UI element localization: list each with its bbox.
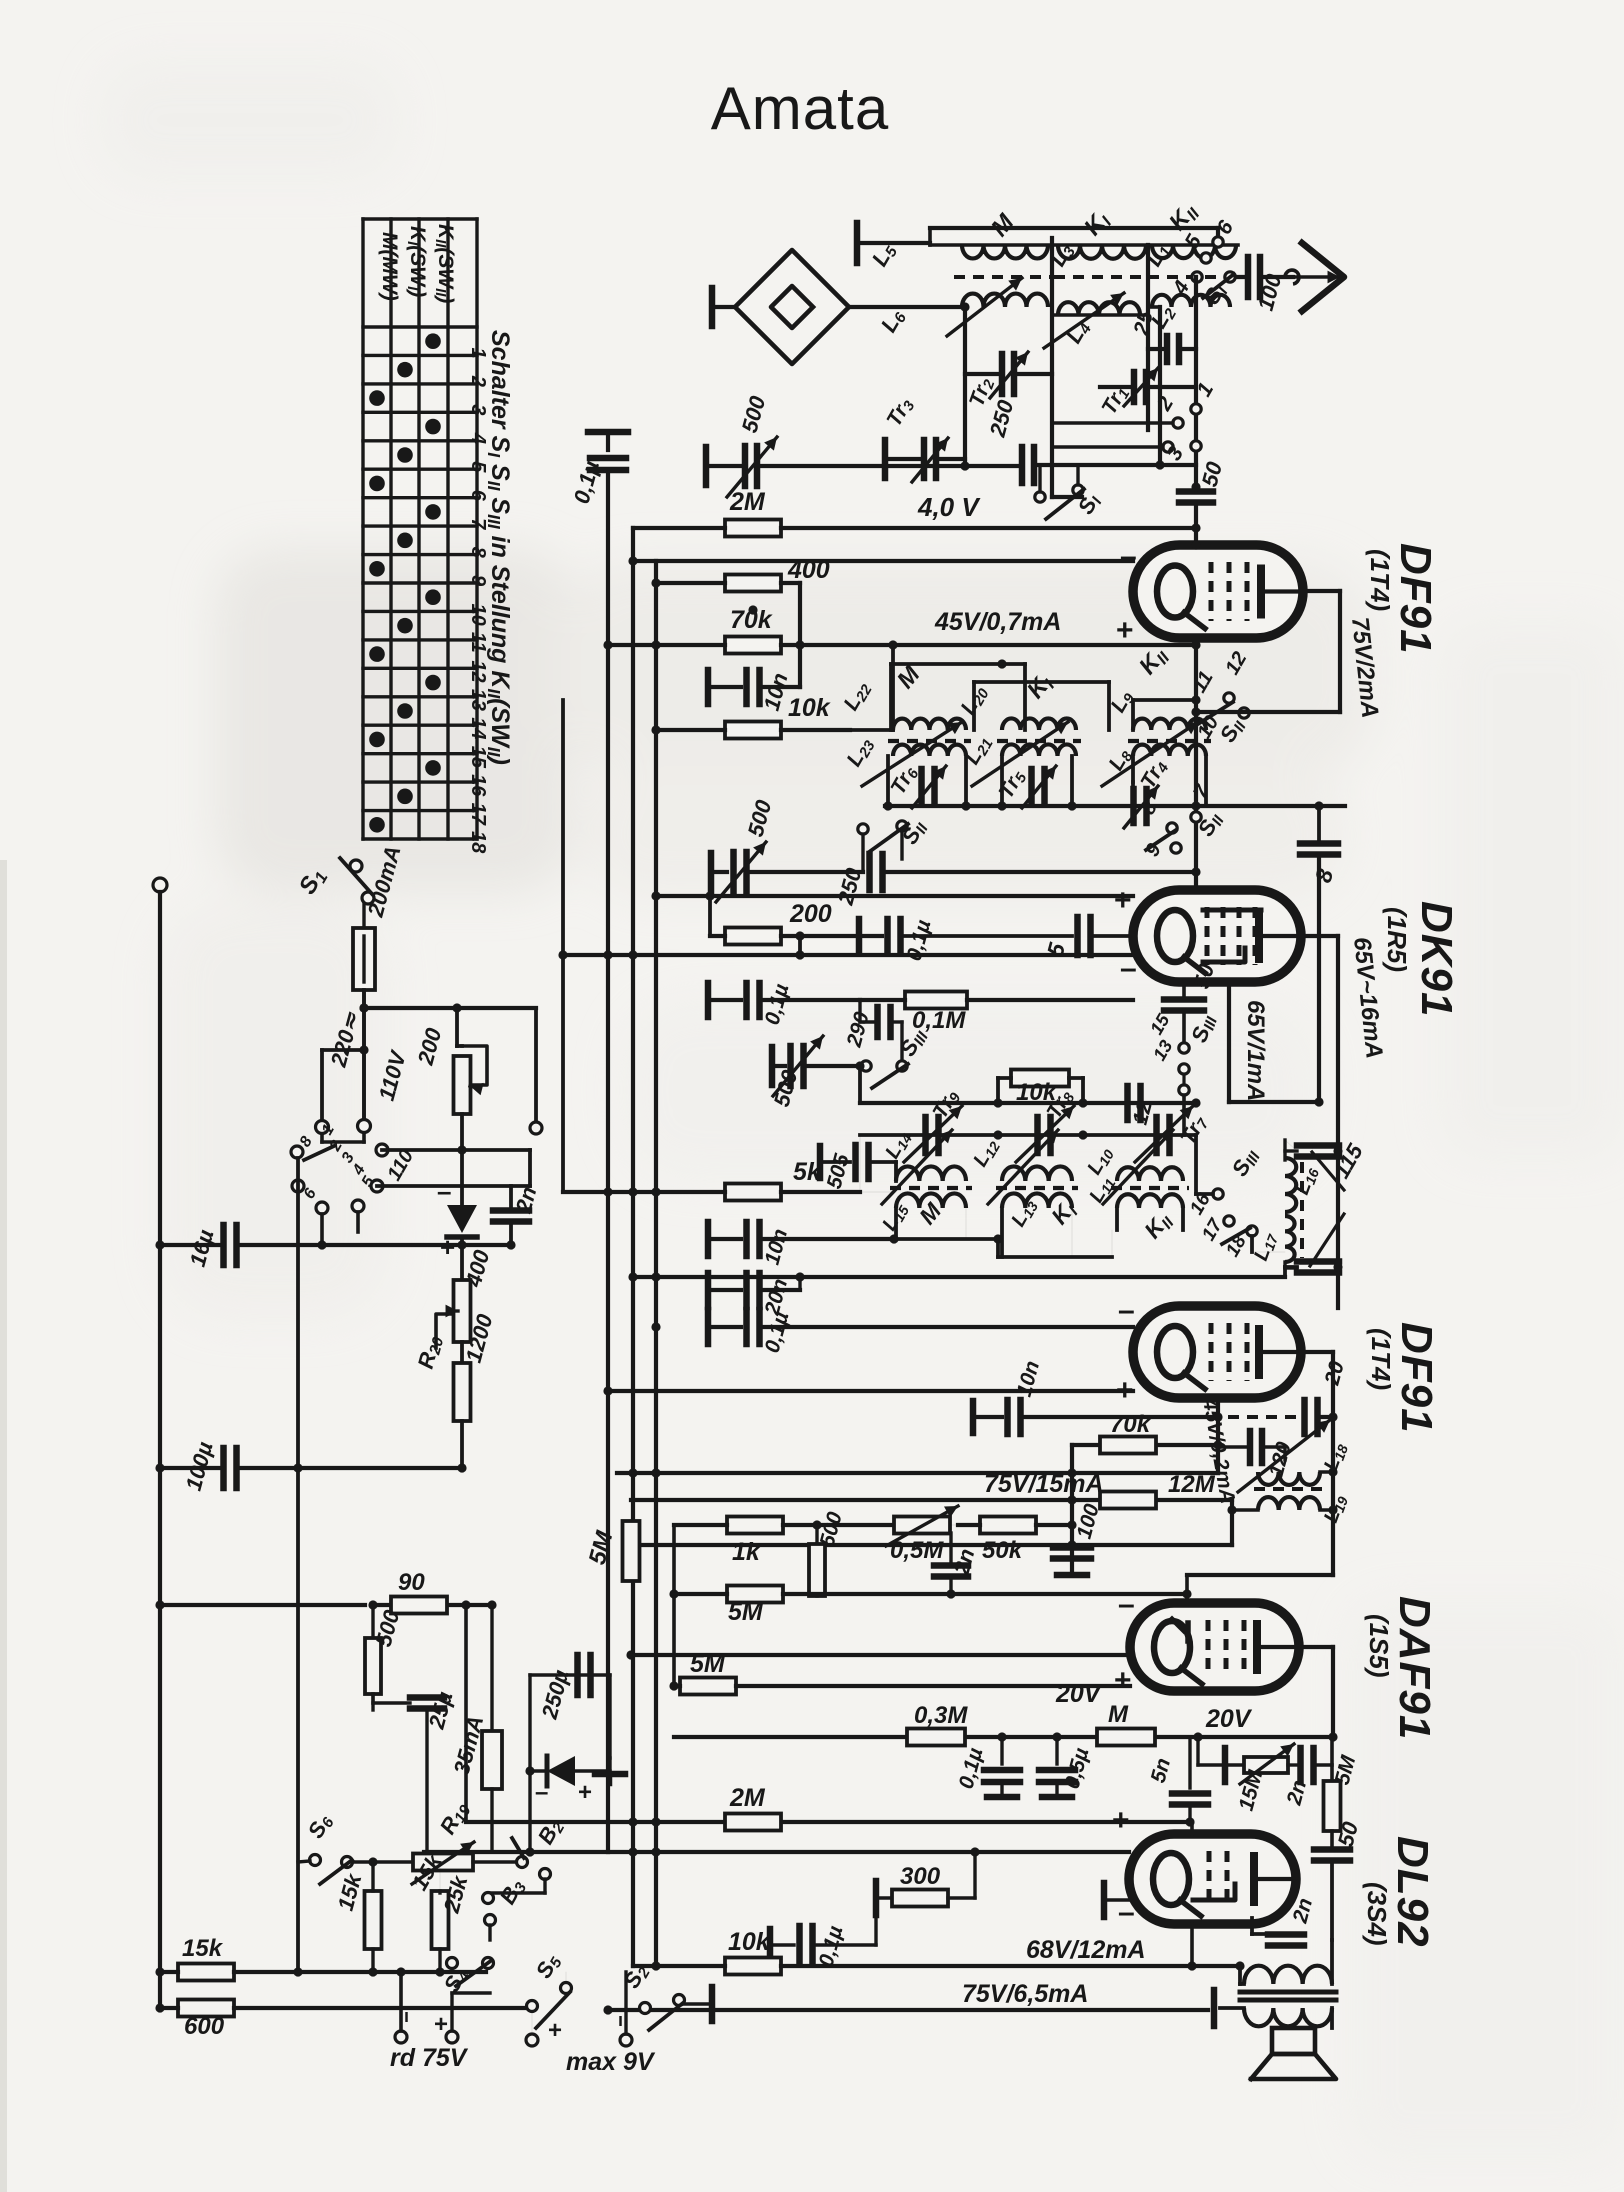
speaker: [1251, 2028, 1336, 2079]
svg-text:20V: 20V: [1205, 1705, 1253, 1733]
wire stub 674: [669, 1525, 678, 1599]
svg-text:10: 10: [467, 603, 489, 625]
svg-text:68V/12mA: 68V/12mA: [1026, 1936, 1146, 1964]
wire bank3 box M: [889, 1208, 998, 1244]
capacitor IF3 top: [1297, 1146, 1339, 1157]
wire top bus: [930, 228, 1218, 245]
wire bus C: [654, 561, 658, 1966]
svg-text:4,0 V: 4,0 V: [917, 492, 981, 522]
wire row 1473: [617, 1468, 1218, 1477]
ground stub left of coil M: [857, 223, 930, 263]
resistor 0.1M: [860, 992, 1133, 1035]
coil KII primary L1: [1141, 198, 1238, 272]
resistor 5M output: [1324, 1753, 1361, 1831]
svg-text:400: 400: [787, 556, 830, 584]
svg-text:600: 600: [184, 2013, 225, 2040]
contact 18 switch SIII: [1222, 1144, 1264, 1261]
switch SII mid: [858, 815, 933, 872]
wire tube4 grid: [1182, 1575, 1333, 1603]
coil K2II primary L9: [1106, 686, 1206, 730]
label 65V~16mA: [1348, 936, 1388, 1060]
label (3S4): [1362, 1882, 1392, 1946]
capacitor 12 osc: [1128, 1086, 1157, 1127]
resistor 25k vertical: [432, 1862, 473, 1977]
svg-text:300: 300: [900, 1863, 941, 1890]
label 65V/1mA: [1242, 1000, 1269, 1101]
wire row 1103: [855, 1061, 1200, 1107]
contact 5: [1180, 231, 1211, 264]
wire hat K2I: [974, 682, 1109, 730]
label 115 trimmer arrows: [1310, 1139, 1368, 1266]
resistor 500 heater: [365, 1605, 405, 1710]
capacitor 250: [984, 397, 1160, 483]
coil K3I secondary L13: [1002, 1193, 1082, 1231]
wire bank3 to IF3: [1196, 1135, 1285, 1252]
svg-text:ı: ı: [618, 2010, 623, 2030]
wire row 465 right: [1155, 460, 1196, 469]
wire selector to bus: [296, 1158, 300, 1972]
contact 17: [1198, 1214, 1234, 1244]
capacitor 0.1u out: [770, 1911, 876, 1969]
label (1T4) V3: [1366, 1328, 1396, 1390]
switch SIII mid: [861, 1024, 933, 1088]
resistor 5M grid: [674, 1594, 1242, 1696]
capacitor 505: [820, 1145, 896, 1191]
coil KII secondary L2: [1146, 295, 1230, 334]
fuse 35mA: [449, 1605, 502, 1852]
svg-text:8: 8: [467, 547, 489, 559]
svg-text:15k: 15k: [182, 1935, 224, 1962]
capacitor 0.1u mid a: [859, 917, 1072, 963]
svg-text:6: 6: [467, 490, 489, 502]
label 20V right: [1205, 1705, 1253, 1733]
wire V4 anode: [1299, 1647, 1333, 1737]
label 75V/6.5mA: [962, 1980, 1088, 2008]
loop antenna: [712, 250, 962, 364]
wire IF3 connections: [628, 1146, 1342, 1281]
capacitor 250u: [530, 1655, 610, 1770]
label minus V4: [1118, 1588, 1135, 1621]
svg-text:70k: 70k: [1110, 1411, 1152, 1438]
label 45V/0.2mA: [1198, 1396, 1239, 1506]
resistor 2M af: [725, 1784, 781, 1831]
potentiometer 15M: [1198, 1737, 1300, 1813]
svg-text:–: –: [1120, 952, 1137, 985]
svg-text:5M: 5M: [690, 1650, 726, 1678]
tube DF91 V1: [1133, 545, 1303, 638]
coil M3 secondary L15: [878, 1193, 966, 1235]
label plus V2: [1114, 884, 1132, 917]
svg-text:12: 12: [467, 660, 489, 682]
contact 16: [1186, 1189, 1223, 1219]
label 75V/2mA: [1346, 616, 1383, 720]
node V1 top: [1191, 540, 1200, 549]
svg-text:ı: ı: [404, 2006, 409, 2026]
table Schalter grid: [363, 219, 477, 839]
svg-text:(3S4): (3S4): [1362, 1882, 1392, 1946]
antenna symbol: [1285, 243, 1344, 311]
coil L18: [1238, 1420, 1351, 1492]
svg-text:2M: 2M: [729, 1784, 766, 1812]
svg-text:0,3M: 0,3M: [914, 1702, 968, 1729]
coil K2I core: [997, 739, 1081, 743]
contact 1: [1191, 379, 1218, 414]
svg-text:11: 11: [467, 632, 489, 653]
battery terminals rd 75V: [390, 1967, 490, 2072]
diode B rectifier 2: [525, 1675, 610, 1857]
wire bank3 box KI: [993, 1208, 1112, 1257]
trimmer Tr7: [1135, 1106, 1213, 1162]
svg-text:1k: 1k: [732, 1538, 761, 1566]
label plus V1: [1116, 614, 1134, 647]
svg-text:+: +: [1116, 1374, 1134, 1407]
wire tube1 cathode row: [1191, 638, 1200, 890]
wire hat M2: [891, 659, 1025, 730]
contact 6: [1212, 217, 1238, 248]
svg-text:(1T4): (1T4): [1365, 549, 1395, 611]
wire row 955: [558, 950, 1133, 959]
coil L17: [1250, 1216, 1297, 1268]
wire avc vertical: [561, 700, 565, 1192]
svg-text:16: 16: [467, 774, 489, 797]
capacitor 50 grid: [1179, 458, 1227, 545]
switch SIII ladder: [1146, 1010, 1221, 1135]
resistor 90: [373, 1569, 497, 1614]
wire grid feed vertical: [1194, 277, 1198, 487]
svg-text:18: 18: [467, 831, 489, 854]
capacitor 290: [842, 1000, 902, 1066]
switch S6: [298, 1809, 412, 1884]
svg-text:2: 2: [467, 375, 489, 387]
coil M2 primary L22: [839, 677, 966, 730]
coil K3II core: [1111, 1186, 1189, 1190]
svg-text:0,1M: 0,1M: [912, 1007, 966, 1034]
svg-text:rd 75V: rd 75V: [390, 2044, 469, 2072]
svg-text:50k: 50k: [982, 1537, 1024, 1564]
capacitor 5n: [1147, 1737, 1208, 1827]
wire KII frame: [1158, 307, 1162, 465]
wire bus B: [631, 528, 635, 1966]
resistor 500 vertical: [809, 1509, 847, 1596]
resistor 600: [155, 2000, 530, 2041]
svg-text:2M: 2M: [729, 488, 766, 516]
capacitor 0.1u osc: [651, 1309, 1133, 1355]
switch S5: [527, 1949, 572, 2028]
svg-text:–: –: [1118, 1588, 1135, 1621]
capacitor 0.1u mid b: [708, 981, 860, 1027]
wire heater vertical: [464, 1605, 468, 1822]
svg-text:75V/15mA: 75V/15mA: [984, 1470, 1104, 1498]
resistor 70k top: [603, 605, 1196, 653]
wire bank3 box KII: [1112, 1208, 1183, 1257]
label 4.0V: [917, 492, 981, 522]
label plus V3: [1116, 1374, 1134, 1407]
svg-text:+: +: [1112, 1804, 1130, 1837]
battery terminal max 9V: [526, 1972, 656, 2076]
svg-text:–: –: [535, 1779, 548, 1806]
svg-text:200: 200: [789, 900, 832, 928]
capacitor 16u: [155, 1225, 511, 1269]
trimmer Tr2: [965, 352, 1052, 410]
label (1T4) V1: [1365, 549, 1395, 611]
svg-text:14: 14: [467, 717, 489, 739]
capacitor 0.1u top left: [569, 432, 628, 1852]
table caption Schalter SI SII SIII in Stellung KII(SWII): [484, 330, 514, 765]
svg-text:DF91: DF91: [1391, 543, 1440, 655]
wire contacts 2-3 links: [1052, 423, 1173, 447]
coil K3I primary L12: [969, 1130, 1072, 1204]
wire row 561: [628, 556, 1133, 565]
resistor 400 top: [651, 556, 829, 650]
resistor M audio: [1097, 1701, 1155, 1746]
ground speaker supply: [595, 1758, 625, 1784]
fuse 200mA: [353, 843, 406, 1125]
coil KI secondary L4: [1044, 293, 1148, 349]
resistor 200 mid: [710, 896, 859, 960]
capacitor 2n out: [1282, 1737, 1332, 1808]
capacitor 50 V2 grid: [1164, 960, 1219, 1042]
switch S2: [619, 1959, 685, 2030]
svg-text:9: 9: [467, 575, 489, 587]
table selection dots: [369, 333, 441, 832]
svg-text:45V/0,7mA: 45V/0,7mA: [934, 608, 1061, 636]
capacitor 250 mid: [832, 854, 1200, 908]
capacitor 10n V3: [973, 1358, 1218, 1434]
switch S1 mains: [294, 858, 374, 904]
svg-text:3: 3: [467, 404, 489, 415]
svg-text:5k: 5k: [793, 1158, 822, 1186]
svg-text:+: +: [1114, 1664, 1132, 1697]
contact 3: [1162, 441, 1201, 465]
terminal bar speaker: [1214, 1990, 1244, 2026]
contact 9: [1141, 807, 1228, 860]
label minus V5: [1118, 1896, 1135, 1929]
svg-text:12M: 12M: [1168, 1471, 1216, 1498]
capacitor 2n speaker: [1252, 1896, 1317, 1946]
coil M2 core: [888, 739, 971, 743]
wire selector loop: [322, 990, 542, 1134]
resistor 12M: [631, 1471, 1237, 1545]
capacitor 50 output: [1314, 1818, 1363, 1940]
svg-text:(1R5): (1R5): [1382, 907, 1412, 972]
svg-text:max 9V: max 9V: [566, 2048, 656, 2076]
contact 11 switch SII: [1188, 668, 1249, 724]
svg-text:+: +: [1116, 614, 1134, 647]
coil K2II secondary L8: [1102, 642, 1206, 786]
wire row 2010: [603, 2005, 1208, 2014]
contact 10: [1193, 712, 1250, 747]
capacitor IF3 bottom: [1297, 1262, 1339, 1273]
coil K3I core: [996, 1186, 1078, 1190]
contact 8 switch SII lower: [1137, 797, 1177, 850]
voltage selector 220/110: [291, 1008, 418, 1250]
label (1R5) V2: [1382, 907, 1412, 972]
label minus V3: [1118, 1294, 1135, 1327]
resistor 15k vertical: [333, 1857, 382, 1976]
coil K3II primary L10: [1083, 1130, 1183, 1204]
wire coil M down: [963, 307, 967, 466]
table header KII(SWII): [432, 224, 457, 303]
table header KI(SWI): [404, 226, 429, 297]
capacitor 100 antenna: [1236, 257, 1293, 313]
node coil M bottom: [960, 302, 969, 470]
table header M(MW): [378, 232, 401, 301]
contact 12: [1221, 648, 1251, 678]
potentiometer 200 mains: [412, 1003, 487, 1114]
resistor 5M audio: [674, 1586, 1187, 1627]
svg-text:65V/1mA: 65V/1mA: [1242, 1000, 1269, 1101]
trimmer Tr3: [882, 394, 965, 482]
variable capacitor 500 top: [706, 393, 1022, 497]
table row numbers 1-18: [467, 347, 489, 854]
resistor 1k: [674, 1517, 894, 1567]
capacitor 25u: [373, 1689, 458, 1852]
contact 2: [1152, 393, 1183, 429]
svg-text:75V/6,5mA: 75V/6,5mA: [962, 1980, 1088, 2008]
svg-text:+: +: [548, 2017, 562, 2044]
wire KI box: [1052, 238, 1148, 497]
variable capacitor 500 mid: [711, 797, 863, 902]
capacitor 10n first: [708, 645, 800, 713]
terminal top left: [153, 878, 167, 2010]
capacitor 2n mains: [493, 1184, 541, 1250]
wire bank2 box KI: [997, 756, 1076, 811]
svg-text:+: +: [1114, 884, 1132, 917]
trimmer Tr6: [886, 761, 946, 808]
capacitor 0.1u af: [955, 1732, 1020, 1797]
coil KI primary L3: [1045, 206, 1148, 271]
output transformer core: [1240, 1992, 1336, 2000]
svg-text:DL92: DL92: [1388, 1836, 1437, 1948]
capacitor 10n osc: [708, 1222, 894, 1267]
svg-text:(1S5): (1S5): [1364, 1614, 1394, 1678]
contact B3: [483, 1874, 531, 1940]
svg-text:M: M: [1108, 1701, 1129, 1728]
resistor 2M top: [633, 488, 1196, 537]
coil L19: [1232, 1492, 1351, 1526]
resistor 300: [876, 1852, 975, 1915]
capacitor 2n audio: [934, 1546, 979, 1599]
switch S4: [439, 1958, 494, 1998]
potentiometer 400 mains: [436, 1245, 495, 1348]
potentiometer 0.5M: [886, 1506, 958, 1566]
coil IF3 core: [1300, 1162, 1304, 1258]
resistor 0.3M: [907, 1702, 968, 1746]
label DF91: [1391, 543, 1440, 655]
wire V1 anode: [1191, 591, 1340, 717]
wire V5 pins: [1190, 1822, 1194, 1966]
coil M primary L5: [867, 239, 1052, 272]
contact 7: [1189, 781, 1214, 822]
label plus V4: [1114, 1664, 1132, 1697]
svg-text:DAF91: DAF91: [1390, 1596, 1439, 1740]
switch SI lower: [1035, 465, 1106, 520]
capacitor 8: [1300, 801, 1338, 1102]
coil KI core: [1054, 275, 1150, 279]
label minus V2: [1120, 952, 1137, 985]
wire V3 anode: [1260, 1352, 1333, 1575]
wire row 1655: [626, 1650, 1133, 1659]
coil M core: [954, 275, 1056, 279]
trimmer Tr4: [1124, 756, 1206, 828]
svg-text:DF91: DF91: [1392, 1322, 1441, 1434]
trimmer Tr5: [994, 765, 1056, 808]
svg-text:–: –: [1118, 1294, 1135, 1327]
capacitor 100u: [155, 1439, 466, 1493]
svg-text:–: –: [437, 1176, 451, 1206]
label DL92: [1388, 1836, 1437, 1948]
resistor 5k: [563, 1135, 896, 1201]
ground bar V5 filament: [1104, 1883, 1129, 1917]
label (1S5): [1364, 1614, 1394, 1678]
svg-text:90: 90: [398, 1569, 425, 1596]
capacitor 0.5u af: [1039, 1732, 1094, 1797]
label 45V/0.7mA: [934, 608, 1061, 636]
svg-text:4: 4: [467, 432, 489, 444]
wire 110 taps: [377, 1145, 530, 1186]
output transformer primary: [1235, 1940, 1332, 1984]
wire row 1135: [860, 1130, 1196, 1139]
label 75V/15mA: [984, 1470, 1104, 1498]
capacitor 100 audio: [1053, 1501, 1104, 1575]
capacitor 20n: [708, 1272, 805, 1318]
diode mains rectifier: [437, 1114, 477, 1262]
title Amata: [711, 75, 889, 142]
label 20V left: [1055, 1680, 1103, 1708]
svg-text:Amata: Amata: [711, 75, 889, 142]
coil K2I primary L20: [956, 681, 1076, 730]
capacitor 25: [1129, 308, 1196, 362]
coil M2 secondary L23: [842, 660, 966, 786]
label minus V1: [1120, 540, 1137, 573]
coil K3II secondary L11: [1085, 1172, 1183, 1245]
label 68V/12mA: [1026, 1936, 1146, 1964]
capacitor 20 V3: [1228, 1358, 1349, 1434]
variable capacitor 500 osc: [769, 1036, 860, 1109]
coil M3 core: [890, 1186, 972, 1190]
capacitor 120: [1218, 1431, 1296, 1479]
wire bank2 box M: [883, 756, 970, 811]
svg-text:DK91: DK91: [1412, 901, 1461, 1018]
wire row 1737: [669, 1681, 1337, 1741]
label DAF91: [1390, 1596, 1439, 1740]
coil M secondary L6: [876, 208, 1048, 337]
svg-text:1: 1: [467, 347, 489, 358]
wire row 1545: [626, 1540, 1232, 1549]
svg-text:5M: 5M: [728, 1598, 764, 1626]
wire V3 cathode down: [1213, 1398, 1222, 1473]
resistor 10k osc: [998, 1070, 1083, 1107]
wire row 896: [651, 891, 1133, 900]
resistor 15k bottom: [155, 1935, 486, 1981]
svg-text:10k: 10k: [788, 694, 831, 722]
resistor 70k V3: [1072, 1411, 1218, 1573]
coil KII core: [1148, 275, 1240, 279]
svg-text:20V: 20V: [1055, 1680, 1103, 1708]
svg-text:5: 5: [467, 461, 489, 473]
svg-text:–: –: [1120, 540, 1137, 573]
contact B2: [490, 1814, 569, 1893]
tube DAF91 V4: [1130, 1603, 1299, 1691]
resistor 5M vertical: [584, 1521, 640, 1581]
svg-text:0,5M: 0,5M: [890, 1537, 944, 1564]
trimmer Tr1: [1097, 368, 1196, 420]
capacitor 5 grid DK91: [1042, 917, 1133, 959]
label DK91: [1412, 901, 1461, 1018]
svg-text:17: 17: [467, 803, 489, 826]
coil K2II core: [1128, 739, 1211, 743]
tube DL92 V5: [1129, 1834, 1296, 1924]
